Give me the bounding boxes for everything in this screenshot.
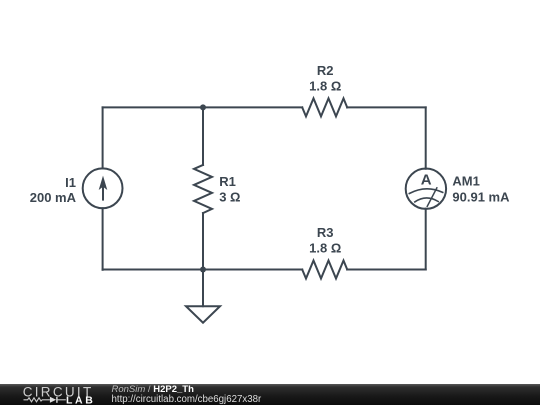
wire middle vertical upper segment [202,107,204,164]
resistor R2 zigzag [302,98,347,116]
svg-text:R2: R2 [317,63,334,78]
svg-text:AM1: AM1 [452,174,479,189]
svg-text:A: A [421,172,432,189]
wire middle vertical lower segment [202,213,204,269]
ground triangle [186,306,220,323]
logo diode bar [56,397,57,403]
footer url line [112,395,262,405]
current source I1 circle [83,168,123,208]
node dot bottom junction [200,267,206,273]
wire bottom from left corner to R3 [103,269,303,271]
node dot top junction [200,104,206,110]
wire left upper segment [102,107,104,168]
resistor R3 zigzag [302,261,347,279]
svg-text:I1: I1 [65,175,76,190]
svg-text:200 mA: 200 mA [30,190,77,205]
svg-text:90.91 mA: 90.91 mA [452,189,510,204]
logo diode triangle [50,397,56,403]
footer title line [112,385,194,396]
svg-text:R1: R1 [219,174,236,189]
svg-text:LAB: LAB [66,395,95,405]
ammeter AM1 needle [427,187,437,207]
ammeter AM1 lower arc [415,198,438,202]
wire top from left corner to R2 [103,106,303,108]
wire top from R2 to right corner [347,106,426,108]
current source I1 arrow head [99,176,108,190]
svg-text:R3: R3 [317,225,334,240]
CircuitLab logo [0,384,110,405]
wire right upper segment [425,107,427,168]
svg-text:1.8 Ω: 1.8 Ω [309,78,341,93]
resistor R1 zigzag [194,165,212,213]
svg-text:3 Ω: 3 Ω [219,190,240,205]
wire bottom from R3 to right corner [347,269,426,271]
wire right lower segment [425,209,427,270]
svg-text:1.8 Ω: 1.8 Ω [309,240,341,255]
ammeter AM1 circle [406,169,446,209]
footer bar [0,384,540,405]
ammeter AM1 upper arc [409,189,442,194]
logo resistor-diode symbol [24,398,66,402]
ground stem wire [202,270,204,307]
current source I1 arrow shaft [102,186,104,201]
wire left lower segment [102,208,104,270]
